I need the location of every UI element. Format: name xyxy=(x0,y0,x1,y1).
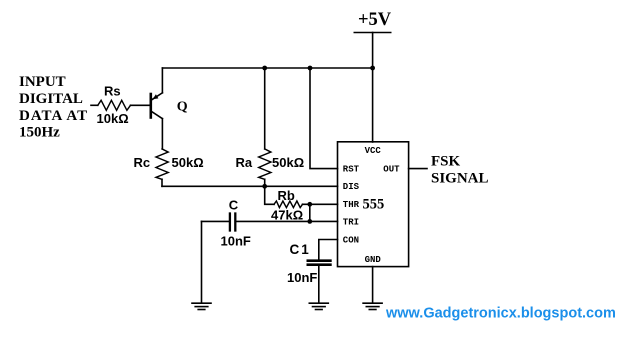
resistor Rc xyxy=(156,149,168,179)
wire RST elbow xyxy=(310,68,338,169)
svg-text:OUT: OUT xyxy=(383,165,400,175)
wire Rc bottom xyxy=(161,179,163,186)
svg-text:www.Gadgetronicx.blogspot.com: www.Gadgetronicx.blogspot.com xyxy=(385,306,616,322)
wire C1 ground drop xyxy=(318,266,320,303)
wire Ra top xyxy=(264,68,266,149)
svg-text:Q: Q xyxy=(177,100,188,115)
svg-text:C: C xyxy=(229,197,239,212)
wire CON elbow xyxy=(319,240,338,260)
wire DIS line xyxy=(162,185,338,187)
wire emitter xyxy=(161,68,163,93)
node junction Ra-DIS xyxy=(262,184,267,189)
svg-text:555: 555 xyxy=(363,196,385,212)
wire Rb elbow xyxy=(265,186,274,204)
svg-text:DIS: DIS xyxy=(343,182,360,192)
wire top rail xyxy=(162,67,372,69)
svg-text:47kΩ: 47kΩ xyxy=(271,207,303,222)
svg-text:TRI: TRI xyxy=(343,217,359,227)
transistor Q xyxy=(151,93,163,119)
svg-text:10nF: 10nF xyxy=(221,234,251,249)
svg-text:Ra: Ra xyxy=(236,155,253,170)
capacitor C1 xyxy=(308,261,331,265)
svg-text:150Hz: 150Hz xyxy=(19,125,60,141)
svg-text:50kΩ: 50kΩ xyxy=(272,155,304,170)
svg-text:DIGITAL: DIGITAL xyxy=(19,91,83,107)
wire input stub xyxy=(91,104,98,106)
svg-text:GND: GND xyxy=(365,255,382,265)
wire C ground drop xyxy=(201,221,203,302)
ground C1 xyxy=(309,303,328,309)
node junction rail-RST xyxy=(308,66,313,71)
capacitor C xyxy=(230,214,235,231)
resistor Ra xyxy=(259,149,271,179)
node junction rail-5V xyxy=(370,66,375,71)
svg-text:Rc: Rc xyxy=(134,155,151,170)
wire TRI line xyxy=(236,220,337,222)
svg-text:+5V: +5V xyxy=(358,10,392,30)
power +5V symbol xyxy=(354,33,390,69)
svg-text:50kΩ: 50kΩ xyxy=(172,155,204,170)
wire collector xyxy=(161,119,163,149)
svg-text:VCC: VCC xyxy=(365,146,382,156)
node junction Rb-THR xyxy=(307,202,312,207)
ground GND xyxy=(363,303,382,309)
wire VCC drop xyxy=(372,68,374,142)
wire base xyxy=(131,104,150,106)
svg-text:10nF: 10nF xyxy=(287,270,317,285)
op-amp U1 555 box xyxy=(338,142,409,267)
svg-text:CON: CON xyxy=(343,235,359,245)
svg-text:Rs: Rs xyxy=(104,84,121,99)
ground left xyxy=(192,303,211,309)
node junction link-TRI xyxy=(307,219,312,224)
wire C left xyxy=(202,220,229,222)
svg-text:THR: THR xyxy=(343,200,360,210)
resistor Rs xyxy=(98,100,131,110)
resistor Rb xyxy=(274,201,303,208)
svg-text:FSK: FSK xyxy=(431,153,461,169)
node junction rail-Ra xyxy=(262,66,267,71)
label INPUT DIGITAL DATA AT 150Hz xyxy=(19,74,88,141)
svg-text:INPUT: INPUT xyxy=(19,74,66,90)
svg-text:SIGNAL: SIGNAL xyxy=(431,171,489,187)
wire Ra bottom xyxy=(264,179,266,186)
svg-text:Rb: Rb xyxy=(278,188,295,203)
svg-text:10kΩ: 10kΩ xyxy=(97,111,129,126)
svg-text:RST: RST xyxy=(343,165,360,175)
wire GND drop xyxy=(372,267,374,303)
wire Rb to THR xyxy=(303,203,338,205)
wire THR-TRI link xyxy=(309,204,311,221)
svg-text:C1: C1 xyxy=(290,242,311,257)
wire OUT xyxy=(409,168,427,170)
svg-text:DATA AT: DATA AT xyxy=(19,108,88,124)
